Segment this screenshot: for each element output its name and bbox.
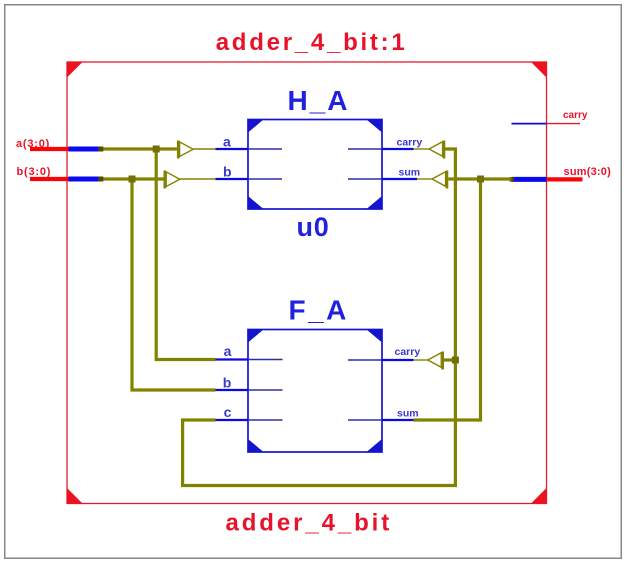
buffer b output wire [180, 178, 216, 180]
U0 corner top-right [367, 120, 383, 133]
buffer a output wire [193, 148, 215, 150]
F_A pin a outside [216, 358, 249, 360]
F_A pin sum outside [382, 419, 414, 421]
F_A pin b inside stub [248, 389, 283, 391]
F_A pin b outside [216, 389, 249, 391]
buffer a input bar [177, 141, 180, 159]
wire net a to buffer [100, 147, 177, 150]
full adder body [248, 330, 382, 453]
buffer F_A carry triangle [428, 353, 442, 368]
wire net b to buffer [100, 177, 164, 180]
svg-text:carry: carry [395, 346, 421, 358]
svg-text:u0: u0 [297, 212, 330, 242]
wire F_A sum branch up [414, 179, 481, 420]
svg-text:b: b [223, 163, 232, 179]
F_A pin a inside stub [248, 359, 283, 361]
U0 pin sum outside [382, 178, 417, 180]
buffer a triangle [180, 142, 194, 157]
F_A corner top-right [367, 330, 383, 343]
svg-text:sum: sum [397, 407, 419, 419]
corner marker bottom-right [531, 488, 547, 504]
output bus sum(3:0) red [547, 177, 583, 181]
buffer F_A carry bar [441, 352, 444, 370]
bus tap cap a [98, 147, 103, 152]
buffer H_A sum triangle [432, 172, 446, 187]
wire H_A carry route to F_A c [183, 149, 456, 486]
svg-text:sum: sum [399, 167, 421, 179]
F_A pin carry outside [382, 359, 414, 361]
junction node a [153, 146, 160, 153]
U0 pin carry inside stub [348, 148, 382, 150]
module boundary adder_4_bit [67, 62, 547, 504]
svg-text:c: c [224, 404, 232, 420]
svg-text:carry: carry [563, 110, 588, 121]
input bus a(3:0) red [30, 147, 69, 151]
junction node sum [477, 176, 484, 183]
corner marker bottom-left [67, 488, 83, 504]
buffer H_A carry triangle [429, 142, 443, 157]
svg-text:F_A: F_A [289, 295, 349, 326]
buffer H_A sum bar [446, 171, 449, 189]
U0 pin a inside stub [248, 148, 282, 150]
output net carry red [547, 123, 581, 125]
U0 corner bottom-left [248, 196, 264, 209]
output net carry blue [512, 123, 547, 125]
buffer b input bar [164, 171, 167, 189]
input bus b(3:0) blue [69, 177, 99, 182]
U0 pin b outside [216, 178, 249, 180]
U0 pin carry outside [382, 148, 414, 150]
half adder U0 body [248, 120, 382, 210]
svg-text:adder_4_bit: adder_4_bit [226, 510, 393, 537]
wire H_A carry to buffer [414, 148, 430, 150]
svg-text:b(3:0): b(3:0) [17, 166, 52, 178]
buffer H_A carry bar [443, 141, 446, 159]
junction node b [129, 176, 136, 183]
U0 pin sum inside stub [348, 178, 382, 180]
svg-text:b: b [223, 374, 232, 390]
corner marker top-left [67, 62, 83, 78]
svg-text:sum(3:0): sum(3:0) [564, 166, 612, 178]
input bus b(3:0) red [30, 177, 69, 181]
corner marker top-right [531, 62, 547, 78]
bus tap cap sum [510, 177, 515, 182]
input bus a(3:0) blue [69, 147, 99, 152]
F_A corner top-left [248, 330, 264, 343]
U0 corner bottom-right [367, 196, 383, 209]
U0 pin a outside [216, 148, 249, 150]
F_A pin sum inside stub [348, 419, 382, 421]
svg-text:H_A: H_A [288, 85, 350, 116]
F_A corner bottom-right [367, 439, 383, 452]
F_A pin c inside stub [248, 419, 283, 421]
svg-text:a: a [224, 343, 232, 359]
F_A pin carry inside stub [348, 359, 382, 361]
wire F_A carry stub [444, 358, 455, 361]
wire net a branch down to F_A a [156, 149, 215, 360]
bus tap cap b [98, 177, 103, 182]
F_A corner bottom-left [248, 439, 264, 452]
wire net b branch down to F_A b [132, 179, 216, 390]
output bus sum(3:0) blue [512, 177, 547, 182]
wire H_A sum to buffer [417, 178, 432, 180]
F_A pin c outside [216, 419, 249, 421]
U0 pin b inside stub [248, 178, 282, 180]
svg-text:a: a [223, 133, 231, 149]
wire F_A carry to buffer [414, 359, 428, 361]
svg-text:adder_4_bit:1: adder_4_bit:1 [216, 29, 408, 56]
svg-text:carry: carry [397, 137, 423, 149]
wire H_A sum to output [448, 177, 511, 180]
junction node F_A carry [452, 357, 459, 364]
U0 corner top-left [248, 120, 264, 133]
buffer b triangle [166, 172, 180, 187]
